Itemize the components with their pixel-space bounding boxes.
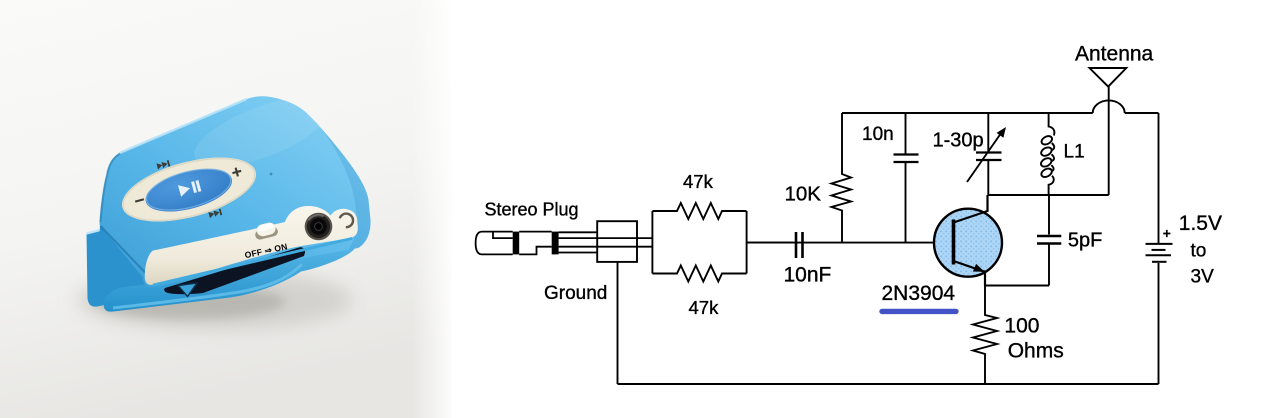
capacitor C4 5pF — [1037, 195, 1061, 286]
variable capacitor C3 1-30p — [967, 113, 1006, 195]
mp3 player OFF/ON label — [244, 241, 289, 260]
svg-text:Antenna: Antenna — [1075, 42, 1154, 65]
inductor L1 — [1040, 113, 1055, 195]
svg-text:10K: 10K — [785, 183, 822, 206]
mp3 player body — [100, 83, 371, 287]
antenna symbol — [1090, 68, 1127, 87]
svg-text:L1: L1 — [1064, 142, 1085, 163]
svg-text:2N3904: 2N3904 — [882, 282, 956, 305]
svg-text:1.5V: 1.5V — [1179, 212, 1222, 235]
svg-text:5pF: 5pF — [1068, 230, 1102, 252]
wire: ground drop from plug box — [617, 262, 619, 384]
svg-text:to: to — [1191, 240, 1207, 261]
base bar — [952, 220, 956, 265]
svg-text:3V: 3V — [1191, 267, 1215, 288]
svg-text:Ground: Ground — [544, 283, 607, 304]
resistor R1 47k / R2 47k parallel block — [652, 203, 746, 282]
2N3904 blue underline — [882, 309, 956, 314]
mp3 player control pad — [114, 139, 265, 239]
wire: battery top vertical — [1158, 113, 1160, 243]
emitter arrow — [973, 264, 985, 272]
wire: tank rail — [988, 194, 1108, 196]
mp3 player reset crescent — [340, 214, 353, 228]
capacitor C1 10nF — [796, 232, 803, 258]
wire: emitter junction wire — [985, 285, 1049, 287]
mp3 player white front strip — [145, 206, 358, 287]
resistor R3 10K — [832, 113, 852, 243]
wire: main base wire — [747, 242, 954, 244]
svg-text:10n: 10n — [862, 124, 894, 145]
wire: battery bottom vertical — [1158, 263, 1160, 384]
stereo plug connector box — [597, 221, 637, 262]
right vertical — [746, 211, 748, 274]
emitter line — [954, 261, 986, 286]
mp3 player dark gap under body — [164, 247, 305, 294]
wire: bottom rail — [618, 383, 1159, 385]
transistor Q1 2N3904 — [934, 195, 1002, 286]
svg-text:47k: 47k — [683, 171, 714, 192]
mp3 player switch — [253, 221, 279, 241]
svg-text:Stereo Plug: Stereo Plug — [485, 200, 579, 220]
mp3 player ground shadow — [77, 270, 353, 330]
battery B1 — [1146, 230, 1173, 262]
left vertical — [651, 211, 653, 274]
svg-text:Ohms: Ohms — [1008, 339, 1064, 362]
mp3 player clip spring notch — [178, 283, 197, 297]
stereo plug insulator band 1 — [513, 232, 520, 255]
mp3 player photo background — [0, 0, 452, 418]
antenna lead — [1108, 86, 1110, 195]
collector line — [954, 195, 988, 223]
svg-text:10nF: 10nF — [784, 264, 832, 287]
stereo plug J1 — [476, 232, 653, 255]
mp3 player clip — [87, 224, 357, 312]
mp3 player headphone jack — [305, 213, 333, 241]
capacitor C2 10n — [894, 113, 919, 243]
stereo plug insulator band 2 — [552, 232, 559, 255]
resistor R2 47k (bottom) — [652, 266, 746, 282]
wire: top rail with antenna hop — [842, 100, 1159, 113]
svg-text:1-30p: 1-30p — [933, 130, 984, 152]
resistor R4 100 Ohms — [973, 286, 997, 385]
svg-text:100: 100 — [1004, 314, 1039, 337]
resistor R1 47k (top) — [652, 203, 746, 219]
svg-text:47k: 47k — [689, 297, 720, 318]
mp3 player pinhole dot — [270, 173, 273, 176]
